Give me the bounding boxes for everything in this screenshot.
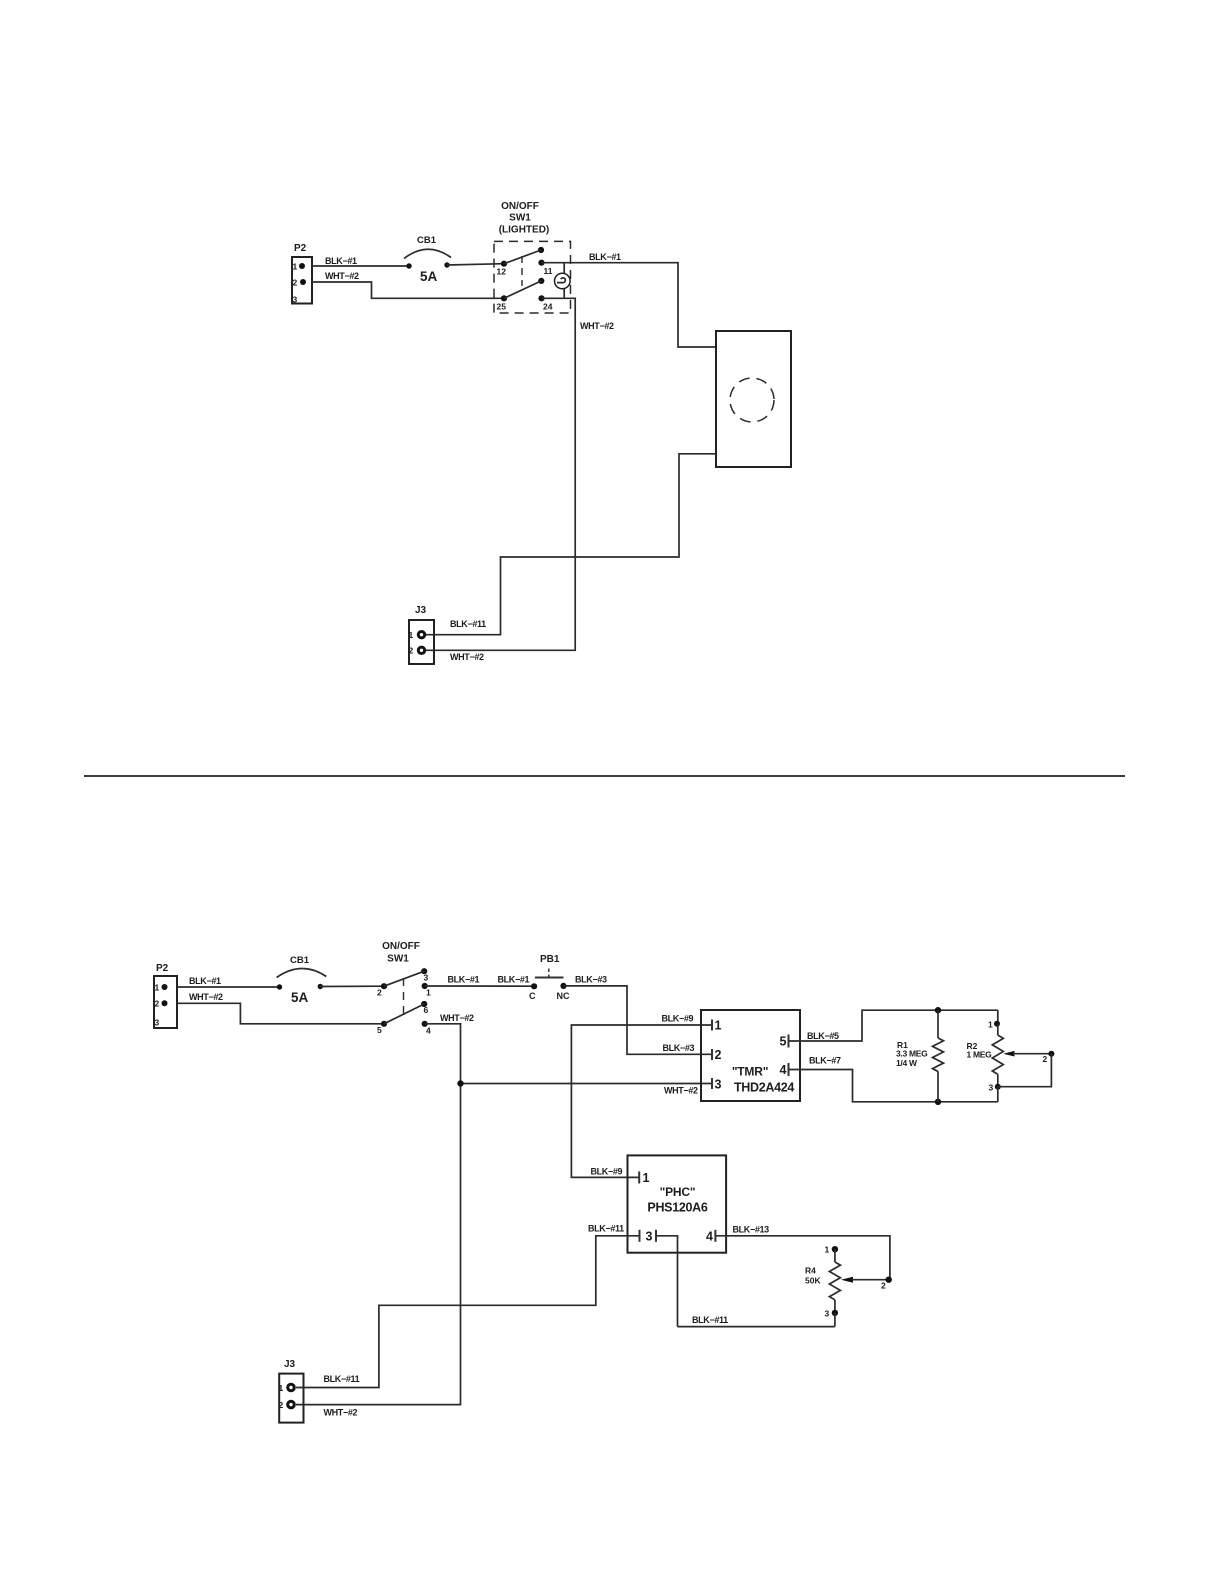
svg-text:2: 2	[293, 278, 298, 288]
resistor R1 3.3 MEG 1/4 W	[896, 1010, 944, 1102]
wire CB1 to SW1 pin 2	[320, 985, 384, 987]
wire BLK-#13 PHC pin 4 to R4 wiper	[715, 1225, 890, 1280]
svg-text:3.3 MEG: 3.3 MEG	[896, 1049, 928, 1059]
svg-text:12: 12	[497, 267, 507, 277]
potentiometer R4 50K	[805, 1245, 892, 1327]
svg-text:BLK−#11: BLK−#11	[692, 1315, 728, 1325]
switch SW1 ON/OFF (LIGHTED)	[494, 201, 571, 313]
svg-text:BLK−#1: BLK−#1	[189, 976, 221, 986]
svg-text:NC: NC	[557, 991, 570, 1001]
lamp inside SW1	[555, 263, 571, 299]
wire BLK-#11 load box to J3 pin 1	[426, 454, 716, 635]
svg-text:5: 5	[377, 1025, 382, 1035]
wire BLK-#9 TMR pin 1 to PHC pin 1	[571, 1014, 712, 1178]
connector J3 (top)	[409, 605, 435, 664]
svg-text:3: 3	[424, 973, 429, 983]
svg-text:BLK−#1: BLK−#1	[498, 975, 530, 985]
svg-text:1: 1	[409, 630, 414, 640]
junction bottom rail at R1	[935, 1099, 941, 1105]
svg-text:1: 1	[155, 983, 160, 993]
svg-text:CB1: CB1	[290, 955, 310, 966]
wire WHT-#2 P2.2 to SW1 pin 5	[177, 992, 384, 1024]
svg-text:2: 2	[715, 1048, 722, 1062]
svg-text:THD2A424: THD2A424	[734, 1081, 794, 1095]
svg-text:1: 1	[426, 988, 431, 998]
svg-text:P2: P2	[294, 243, 307, 254]
photocontrol module U2 "PHC" PHS120A6	[628, 1155, 727, 1252]
svg-text:C: C	[529, 991, 536, 1001]
svg-text:6: 6	[424, 1005, 429, 1015]
svg-text:PB1: PB1	[540, 954, 560, 965]
svg-text:P2: P2	[156, 963, 169, 974]
svg-text:2: 2	[409, 646, 414, 656]
svg-text:R4: R4	[805, 1266, 816, 1276]
svg-text:BLK−#9: BLK−#9	[591, 1167, 623, 1177]
connector J3 (bottom)	[279, 1359, 304, 1423]
svg-text:3: 3	[293, 295, 298, 305]
svg-text:1: 1	[643, 1171, 650, 1185]
svg-text:"PHC": "PHC"	[660, 1185, 696, 1199]
svg-text:WHT−#2: WHT−#2	[580, 321, 614, 331]
svg-text:1: 1	[279, 1383, 284, 1393]
svg-text:BLK−#7: BLK−#7	[809, 1056, 841, 1066]
wire BLK-#3 PB1 NC to TMR pin 2	[564, 975, 713, 1055]
svg-text:2: 2	[1043, 1054, 1048, 1064]
circuit breaker CB1 5A (bottom)	[277, 955, 327, 1005]
svg-text:1: 1	[715, 1019, 722, 1033]
svg-text:4: 4	[426, 1026, 431, 1036]
svg-text:5: 5	[780, 1035, 787, 1049]
connector P2 (top)	[292, 243, 312, 305]
svg-text:BLK−#5: BLK−#5	[807, 1031, 839, 1041]
wire BLK-#1 P2.1 to CB1 (bottom)	[177, 976, 280, 987]
svg-text:BLK−#11: BLK−#11	[450, 619, 486, 629]
junction top rail at R1	[935, 1007, 941, 1013]
wire BLK-#11 R4 pin 3 run	[678, 1315, 835, 1327]
circuit breaker CB1 5A (top)	[404, 235, 451, 284]
svg-text:BLK−#1: BLK−#1	[589, 252, 621, 262]
svg-text:(LIGHTED): (LIGHTED)	[499, 225, 550, 236]
svg-text:"TMR": "TMR"	[732, 1065, 768, 1079]
svg-text:J3: J3	[415, 605, 427, 616]
connector P2 (bottom)	[154, 963, 177, 1028]
svg-text:WHT−#2: WHT−#2	[325, 271, 359, 281]
svg-text:BLK−#1: BLK−#1	[448, 975, 480, 985]
svg-text:BLK−#9: BLK−#9	[662, 1014, 694, 1024]
wire PHC pin 3 internal stub down to BLK-#11 run	[656, 1236, 678, 1327]
svg-text:BLK−#3: BLK−#3	[663, 1043, 695, 1053]
wire BLK-#1 P2.1 to CB1	[312, 256, 409, 266]
pushbutton PB1 (N.C.)	[529, 954, 570, 1001]
svg-text:WHT−#2: WHT−#2	[324, 1408, 358, 1418]
svg-text:24: 24	[543, 302, 553, 312]
svg-text:BLK−#1: BLK−#1	[325, 256, 357, 266]
svg-text:2: 2	[377, 988, 382, 998]
svg-text:25: 25	[497, 302, 507, 312]
svg-text:3: 3	[155, 1018, 160, 1028]
potentiometer R2 1 MEG	[967, 1010, 1055, 1102]
wire WHT-#2 SW1 pin 24 to J3 pin 2	[426, 298, 614, 650]
svg-text:5A: 5A	[420, 269, 438, 284]
svg-text:2: 2	[155, 999, 160, 1009]
load box (lamp fixture)	[716, 331, 791, 467]
svg-text:CB1: CB1	[417, 235, 437, 246]
wire BLK-#5 TMR pin 5 to R1/R2 top rail	[789, 1010, 998, 1041]
svg-text:1 MEG: 1 MEG	[967, 1050, 993, 1060]
svg-text:4: 4	[780, 1063, 787, 1077]
svg-text:3: 3	[646, 1230, 653, 1244]
wire BLK-#1 SW1 pin 11 to load box	[542, 252, 717, 347]
svg-text:BLK−#3: BLK−#3	[575, 975, 607, 985]
svg-text:3: 3	[825, 1309, 830, 1319]
wire WHT-#2 SW1 pin 4 down to J3 pin 2	[296, 1013, 474, 1405]
svg-text:2: 2	[279, 1400, 284, 1410]
svg-text:WHT−#2: WHT−#2	[664, 1086, 698, 1096]
svg-text:2: 2	[881, 1281, 886, 1291]
svg-text:BLK−#13: BLK−#13	[733, 1225, 770, 1235]
wire BLK-#11 PHC pin 3 to J3 pin 1	[296, 1224, 640, 1388]
junction WHT-#2 node	[457, 1080, 463, 1086]
svg-text:SW1: SW1	[387, 954, 409, 965]
wire BLK-#7 TMR pin 4 to bottom rail	[789, 1056, 998, 1102]
timer module U1 "TMR" THD2A424	[701, 1010, 800, 1101]
svg-text:1/4 W: 1/4 W	[896, 1058, 918, 1068]
svg-text:1: 1	[293, 262, 298, 272]
svg-text:WHT−#2: WHT−#2	[189, 992, 223, 1002]
separator rule	[84, 775, 1125, 777]
svg-text:ON/OFF: ON/OFF	[501, 201, 539, 212]
svg-text:3: 3	[715, 1078, 722, 1092]
wire BLK-#1 SW1 pin 1 to PB1 C	[425, 975, 534, 987]
svg-text:BLK−#11: BLK−#11	[324, 1374, 360, 1384]
svg-text:SW1: SW1	[509, 213, 531, 224]
wire WHT-#2 P2.2 to SW1 pin 25	[312, 271, 504, 298]
svg-text:PHS120A6: PHS120A6	[647, 1201, 707, 1215]
wire CB1 to SW1 pin 12	[447, 264, 504, 265]
svg-text:1: 1	[825, 1245, 830, 1255]
svg-text:J3: J3	[284, 1359, 296, 1370]
svg-text:50K: 50K	[805, 1276, 821, 1286]
wire WHT-#2 junction to TMR pin 3	[461, 1084, 713, 1096]
svg-text:WHT−#2: WHT−#2	[440, 1013, 474, 1023]
svg-text:BLK−#11: BLK−#11	[588, 1224, 624, 1234]
svg-text:ON/OFF: ON/OFF	[382, 941, 420, 952]
switch SW1 ON/OFF (bottom)	[377, 941, 431, 1036]
svg-text:11: 11	[544, 266, 553, 276]
svg-text:1: 1	[988, 1020, 993, 1030]
svg-text:4: 4	[706, 1230, 713, 1244]
svg-text:3: 3	[989, 1083, 994, 1093]
svg-text:WHT−#2: WHT−#2	[450, 652, 484, 662]
svg-text:5A: 5A	[291, 990, 309, 1005]
